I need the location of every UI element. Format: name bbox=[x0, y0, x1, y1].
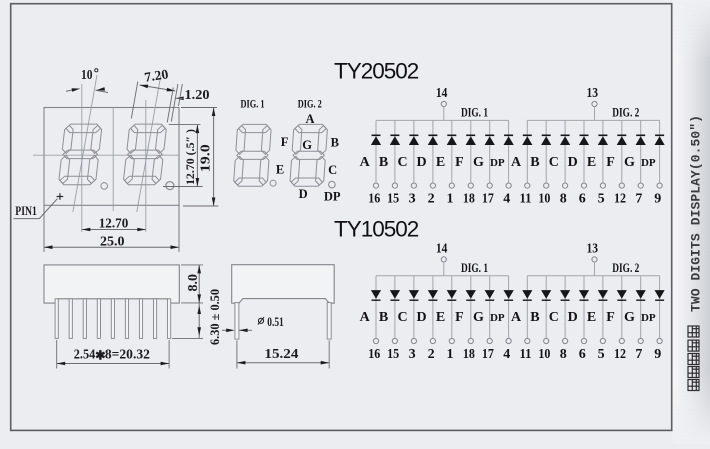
svg-text:DP: DP bbox=[490, 157, 505, 169]
diode TY10502 DIG.2-C bbox=[560, 290, 570, 300]
TY10502 wire DIG.2 segment G column bbox=[640, 276, 642, 339]
svg-text:6: 6 bbox=[579, 192, 586, 207]
TY10502 DIG.2 common bus wire bbox=[527, 275, 659, 277]
TY10502 pin terminal 6 bbox=[581, 338, 586, 343]
TY20502 pin terminal 8 bbox=[563, 183, 568, 188]
svg-text:2: 2 bbox=[428, 192, 435, 207]
svg-text:15: 15 bbox=[387, 347, 399, 362]
svg-text:10: 10 bbox=[538, 347, 550, 362]
svg-text:A: A bbox=[360, 155, 371, 170]
pin 8 lead bbox=[153, 299, 156, 339]
svg-text:E: E bbox=[436, 310, 445, 325]
svg-text:4: 4 bbox=[503, 192, 510, 207]
TY10502 pin 13 terminal (DIG.2 common) bbox=[586, 241, 598, 262]
diode TY10502 DIG.1-E bbox=[447, 290, 457, 300]
TY10502 pin terminal 17 bbox=[487, 338, 492, 343]
svg-text:F: F bbox=[606, 310, 615, 325]
TY10502 wire DIG.2 segment D column bbox=[583, 276, 585, 339]
TY20502 pin terminal 4 bbox=[506, 183, 511, 188]
svg-text:DP: DP bbox=[641, 157, 656, 169]
svg-text:E: E bbox=[587, 155, 596, 170]
svg-text:C: C bbox=[398, 310, 408, 325]
TY10502 pin terminal 15 bbox=[392, 338, 397, 343]
svg-text:D: D bbox=[568, 310, 578, 325]
svg-text:5: 5 bbox=[598, 192, 605, 207]
svg-text:F: F bbox=[455, 310, 464, 325]
TY20502 pin terminal 3 bbox=[411, 183, 416, 188]
diode TY20502 DIG.1-G bbox=[485, 135, 495, 145]
svg-text:G: G bbox=[473, 310, 484, 325]
svg-text:D: D bbox=[417, 310, 427, 325]
TY10502 wire DIG.2 segment E column bbox=[602, 276, 604, 339]
TY20502 wire DIG.2 segment F column bbox=[621, 120, 623, 183]
diode TY10502 DIG.1-C bbox=[409, 290, 419, 300]
svg-text:13: 13 bbox=[586, 86, 598, 101]
svg-text:1: 1 bbox=[447, 192, 454, 207]
pin 3 lead bbox=[83, 299, 86, 339]
diode TY10502 DIG.2-DP bbox=[655, 290, 665, 300]
diode TY10502 DIG.1-D bbox=[428, 290, 438, 300]
svg-text:6.30 ± 0.50: 6.30 ± 0.50 bbox=[207, 289, 222, 345]
dimension 12.70(.5") (digit height) bbox=[163, 125, 203, 187]
TY10502 wire DIG.1 segment A column bbox=[375, 276, 377, 339]
TY20502 pin 14 terminal (DIG.1 common) bbox=[436, 86, 448, 107]
svg-text:D: D bbox=[417, 155, 427, 170]
svg-text:9: 9 bbox=[654, 192, 661, 207]
svg-text:15: 15 bbox=[387, 192, 399, 207]
TY20502 pin 13 terminal (DIG.2 common) bbox=[586, 86, 598, 107]
TY20502 wire DIG.2 segment D column bbox=[583, 120, 585, 183]
digit 2 vertical centreline bbox=[145, 100, 147, 232]
TY20502 pin terminal 2 bbox=[430, 183, 435, 188]
digit 2 seven-segment face bbox=[123, 124, 167, 185]
TY20502 pin terminal 12 bbox=[619, 183, 624, 188]
svg-text:19.0: 19.0 bbox=[197, 144, 212, 172]
package side view body bbox=[44, 265, 179, 303]
TY10502 wire DIG.1 segment E column bbox=[451, 276, 453, 339]
dimension 25.0 (package width) bbox=[44, 205, 179, 252]
TY10502 pin terminal 7 bbox=[638, 338, 643, 343]
svg-text:8: 8 bbox=[560, 347, 567, 362]
digit 1 seven-segment face bbox=[58, 124, 102, 185]
svg-text:DIG. 1: DIG. 1 bbox=[461, 261, 488, 275]
svg-text:A: A bbox=[305, 112, 314, 126]
TY10502 pin 14 terminal (DIG.1 common) bbox=[436, 241, 448, 262]
diode TY20502 DIG.2-F bbox=[617, 135, 627, 145]
svg-text:DIG. 1: DIG. 1 bbox=[241, 96, 265, 110]
svg-text:B: B bbox=[530, 310, 539, 325]
pin 7 lead bbox=[139, 299, 142, 339]
svg-text:DIG. 2: DIG. 2 bbox=[298, 96, 322, 110]
svg-text:16: 16 bbox=[368, 347, 380, 362]
diode TY20502 DIG.1-F bbox=[466, 135, 476, 145]
digit 1 vertical centreline bbox=[81, 84, 83, 232]
svg-text:TY20502: TY20502 bbox=[334, 59, 419, 84]
end view right lead bbox=[327, 303, 331, 340]
TY20502 pin terminal 15 bbox=[392, 183, 397, 188]
svg-text:12: 12 bbox=[614, 347, 626, 362]
TY10502 pin terminal 5 bbox=[600, 338, 605, 343]
svg-text:E: E bbox=[436, 155, 445, 170]
title block sidebar bbox=[673, 0, 710, 444]
diode TY10502 DIG.1-A bbox=[371, 290, 381, 300]
svg-text:17: 17 bbox=[482, 192, 494, 207]
svg-text:18: 18 bbox=[463, 347, 475, 362]
svg-text:12.70: 12.70 bbox=[99, 216, 129, 231]
TY10502 pin terminal 10 bbox=[544, 338, 549, 343]
TY20502 wire DIG.2 segment B column bbox=[545, 120, 547, 183]
svg-text:8.0: 8.0 bbox=[185, 274, 200, 292]
svg-text:A: A bbox=[511, 155, 522, 170]
dimension 1.20 (gap) bbox=[171, 84, 209, 122]
svg-text:10: 10 bbox=[81, 67, 93, 82]
TY10502 pin terminal 16 bbox=[373, 338, 378, 343]
TY10502 wire DIG.2 segment A column bbox=[526, 276, 528, 339]
PIN1 marker and label bbox=[14, 193, 64, 218]
TY20502 pin terminal 7 bbox=[638, 183, 643, 188]
TY20502 wire DIG.1 segment E column bbox=[451, 120, 453, 183]
pin 9 lead bbox=[168, 299, 171, 339]
TY20502 wire pin14 to DIG.1 bus bbox=[443, 107, 445, 121]
diode TY20502 DIG.2-B bbox=[541, 135, 551, 145]
TY20502 DIG.2 common bus wire bbox=[527, 119, 659, 121]
svg-text:5: 5 bbox=[598, 347, 605, 362]
svg-text:9: 9 bbox=[654, 347, 661, 362]
svg-text:TY10502: TY10502 bbox=[334, 217, 419, 242]
svg-text:1: 1 bbox=[447, 347, 454, 362]
svg-text:B: B bbox=[331, 135, 339, 149]
svg-text:15.24: 15.24 bbox=[264, 347, 298, 362]
svg-text:12.70 (.5″ ): 12.70 (.5″ ) bbox=[183, 129, 197, 185]
TY20502 wire DIG.2 segment C column bbox=[564, 120, 566, 183]
TY10502 pin terminal 18 bbox=[468, 338, 473, 343]
dimension 19.0 (package height) bbox=[181, 108, 218, 207]
TY20502 pin terminal 5 bbox=[600, 183, 605, 188]
TY10502 wire pin13 to DIG.2 bus bbox=[594, 262, 596, 276]
DIG.1 seven-segment face bbox=[233, 124, 271, 186]
diode TY20502 DIG.2-G bbox=[636, 135, 646, 145]
diode TY20502 DIG.1-B bbox=[390, 135, 400, 145]
svg-text:E: E bbox=[276, 162, 284, 176]
svg-text:8=20.32: 8=20.32 bbox=[105, 348, 150, 363]
diode TY10502 DIG.2-E bbox=[598, 290, 608, 300]
svg-text:C: C bbox=[398, 155, 408, 170]
DIG.1 decimal point bbox=[270, 180, 276, 186]
svg-text:G: G bbox=[624, 155, 635, 170]
dimension 2.54*8=20.32 (lead pitch) bbox=[57, 340, 169, 369]
diode TY10502 DIG.1-F bbox=[466, 290, 476, 300]
pin 1 lead bbox=[55, 299, 58, 339]
TY10502 pin terminal 11 bbox=[525, 338, 530, 343]
digit 2 slant (10°) centreline bbox=[137, 75, 161, 212]
pin 6 lead bbox=[125, 299, 128, 339]
DIG.2 decimal point bbox=[329, 181, 336, 188]
svg-text:DP: DP bbox=[324, 190, 341, 204]
TY10502 wire DIG.2 segment B column bbox=[545, 276, 547, 339]
svg-text:18: 18 bbox=[463, 192, 475, 207]
sidebar title: 双位数码管 TWO DIGITS DISPLAY(0.50") bbox=[688, 115, 704, 391]
svg-text:3: 3 bbox=[409, 192, 416, 207]
svg-text:11: 11 bbox=[520, 192, 532, 207]
svg-text:2: 2 bbox=[428, 347, 435, 362]
dimension 6.30 ± 0.50 (lead length) bbox=[172, 289, 222, 345]
pin 4 lead bbox=[97, 299, 100, 339]
svg-text:B: B bbox=[379, 155, 388, 170]
TY20502 wire DIG.1 segment C column bbox=[413, 120, 415, 183]
TY20502 wire DIG.1 segment DP column bbox=[508, 120, 510, 183]
diode TY10502 DIG.2-F bbox=[617, 290, 627, 300]
dimension 7.20 (digit width) bbox=[131, 66, 175, 122]
digit 1 slant (10°) centreline bbox=[73, 75, 97, 212]
TY10502 pin terminal 4 bbox=[506, 338, 511, 343]
diode TY20502 DIG.2-A bbox=[522, 135, 532, 145]
TY10502 pin terminal 8 bbox=[563, 338, 568, 343]
end view left lead bbox=[235, 303, 239, 340]
diode TY20502 DIG.2-E bbox=[598, 135, 608, 145]
diode TY10502 DIG.2-G bbox=[636, 290, 646, 300]
diode TY10502 DIG.2-A bbox=[522, 290, 532, 300]
svg-text:A: A bbox=[360, 310, 371, 325]
diode TY10502 DIG.1-G bbox=[485, 290, 495, 300]
svg-text:PIN1: PIN1 bbox=[15, 204, 37, 218]
diode TY20502 DIG.2-D bbox=[579, 135, 589, 145]
TY10502 wire DIG.1 segment C column bbox=[413, 276, 415, 339]
svg-text:1.20: 1.20 bbox=[185, 88, 210, 103]
TY20502 wire DIG.1 segment F column bbox=[470, 120, 472, 183]
svg-text:A: A bbox=[511, 310, 522, 325]
svg-text:B: B bbox=[379, 310, 388, 325]
diode TY20502 DIG.2-DP bbox=[655, 135, 665, 145]
TY20502 pin terminal 10 bbox=[544, 183, 549, 188]
TY20502 wire DIG.1 segment D column bbox=[432, 120, 434, 183]
svg-text:C: C bbox=[549, 155, 559, 170]
TY20502 pin terminal 16 bbox=[373, 183, 378, 188]
svg-text:DP: DP bbox=[641, 312, 656, 324]
svg-text:G: G bbox=[302, 138, 312, 152]
TY20502 wire DIG.1 segment B column bbox=[394, 120, 396, 183]
svg-text:14: 14 bbox=[436, 241, 448, 256]
svg-text:3: 3 bbox=[409, 347, 416, 362]
svg-text:F: F bbox=[281, 135, 289, 149]
svg-text:DIG. 2: DIG. 2 bbox=[612, 261, 639, 275]
TY10502 wire DIG.1 segment G column bbox=[489, 276, 491, 339]
svg-text:E: E bbox=[587, 310, 596, 325]
TY20502 wire pin13 to DIG.2 bus bbox=[594, 107, 596, 121]
svg-text:12: 12 bbox=[614, 192, 626, 207]
svg-text:16: 16 bbox=[368, 192, 380, 207]
svg-text:8: 8 bbox=[560, 192, 567, 207]
dimension 15.24 (lead span) bbox=[237, 341, 329, 369]
svg-text:DP: DP bbox=[490, 312, 505, 324]
diode TY20502 DIG.1-D bbox=[428, 135, 438, 145]
TY10502 wire DIG.2 segment DP column bbox=[659, 276, 661, 339]
svg-text:C: C bbox=[328, 163, 337, 177]
svg-text:14: 14 bbox=[436, 86, 448, 101]
horizontal centreline bbox=[33, 154, 179, 156]
TY20502 wire DIG.2 segment DP column bbox=[659, 120, 661, 183]
svg-text:B: B bbox=[530, 155, 539, 170]
svg-text:11: 11 bbox=[520, 347, 532, 362]
dimension 12.70 (digit pitch) bbox=[82, 216, 146, 231]
package front view outline bbox=[44, 108, 179, 206]
diode TY20502 DIG.1-A bbox=[371, 135, 381, 145]
dimension 8.0 (body height) bbox=[181, 265, 203, 303]
TY10502 wire DIG.1 segment DP column bbox=[508, 276, 510, 339]
svg-text:0.51: 0.51 bbox=[267, 314, 284, 329]
svg-text:G: G bbox=[624, 310, 635, 325]
digit 2 decimal point bbox=[166, 182, 174, 190]
TY10502 wire DIG.1 segment F column bbox=[470, 276, 472, 339]
TY10502 DIG.1 common bus wire bbox=[376, 275, 509, 277]
svg-text:C: C bbox=[549, 310, 559, 325]
TY10502 pin terminal 2 bbox=[430, 338, 435, 343]
diode TY20502 DIG.1-C bbox=[409, 135, 419, 145]
svg-text:7: 7 bbox=[635, 192, 642, 207]
TY10502 pin terminal 1 bbox=[449, 338, 454, 343]
pin 2 lead bbox=[69, 299, 72, 339]
TY20502 pin terminal 6 bbox=[581, 183, 586, 188]
pin 5 lead bbox=[111, 299, 114, 339]
svg-text:25.0: 25.0 bbox=[100, 234, 125, 249]
diode TY10502 DIG.1-DP bbox=[504, 290, 514, 300]
TY20502 wire DIG.1 segment G column bbox=[489, 120, 491, 183]
diode TY20502 DIG.2-C bbox=[560, 135, 570, 145]
svg-text:F: F bbox=[455, 155, 464, 170]
svg-text:G: G bbox=[473, 155, 484, 170]
svg-text:17: 17 bbox=[482, 347, 494, 362]
TY10502 pin terminal 12 bbox=[619, 338, 624, 343]
svg-text:DIG. 1: DIG. 1 bbox=[461, 105, 488, 119]
package end view body bbox=[232, 265, 335, 304]
diode TY20502 DIG.1-DP bbox=[504, 135, 514, 145]
TY20502 wire DIG.2 segment A column bbox=[526, 120, 528, 183]
diode TY10502 DIG.2-D bbox=[579, 290, 589, 300]
svg-text:10: 10 bbox=[538, 192, 550, 207]
TY20502 wire DIG.2 segment G column bbox=[640, 120, 642, 183]
diode TY20502 DIG.1-E bbox=[447, 135, 457, 145]
TY10502 wire DIG.1 segment B column bbox=[394, 276, 396, 339]
digit 1 decimal point bbox=[101, 183, 108, 190]
dimension 10° (digit slant angle) bbox=[66, 67, 108, 93]
TY10502 pin terminal 3 bbox=[411, 338, 416, 343]
svg-text:7: 7 bbox=[635, 347, 642, 362]
dimension ∅0.51 (lead diameter) bbox=[222, 314, 284, 332]
TY10502 wire pin14 to DIG.1 bus bbox=[443, 262, 445, 276]
svg-text:6: 6 bbox=[579, 347, 586, 362]
TY20502 pin terminal 1 bbox=[449, 183, 454, 188]
svg-text:4: 4 bbox=[503, 347, 510, 362]
TY10502 wire DIG.2 segment C column bbox=[564, 276, 566, 339]
TY10502 wire DIG.1 segment D column bbox=[432, 276, 434, 339]
diode TY10502 DIG.2-B bbox=[541, 290, 551, 300]
svg-text:D: D bbox=[568, 155, 578, 170]
TY20502 pin terminal 9 bbox=[657, 183, 662, 188]
TY20502 wire DIG.1 segment A column bbox=[375, 120, 377, 183]
svg-text:D: D bbox=[299, 187, 308, 201]
TY20502 wire DIG.2 segment E column bbox=[602, 120, 604, 183]
svg-text:2.54: 2.54 bbox=[74, 348, 96, 363]
TY20502 pin terminal 18 bbox=[468, 183, 473, 188]
DIG.2 seven-segment face bbox=[290, 124, 328, 186]
package centre divider line bbox=[112, 108, 114, 212]
svg-text:TWO DIGITS DISPLAY(0.50″): TWO DIGITS DISPLAY(0.50″) bbox=[689, 115, 704, 312]
diode TY10502 DIG.1-B bbox=[390, 290, 400, 300]
svg-text:F: F bbox=[606, 155, 615, 170]
TY10502 wire DIG.2 segment F column bbox=[621, 276, 623, 339]
TY10502 pin terminal 9 bbox=[657, 338, 662, 343]
svg-text:DIG. 2: DIG. 2 bbox=[612, 105, 639, 119]
TY20502 pin terminal 11 bbox=[525, 183, 530, 188]
TY20502 DIG.1 common bus wire bbox=[376, 119, 509, 121]
svg-text:13: 13 bbox=[586, 241, 598, 256]
TY20502 pin terminal 17 bbox=[487, 183, 492, 188]
